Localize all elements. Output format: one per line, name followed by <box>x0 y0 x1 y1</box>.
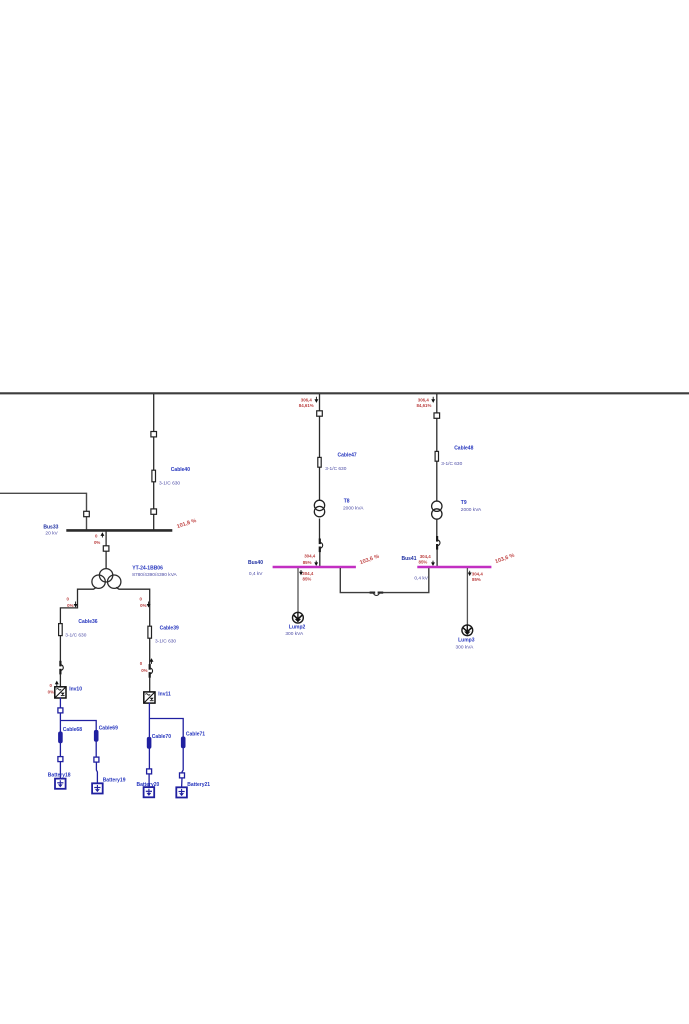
svg-text:Lump2: Lump2 <box>289 625 306 631</box>
svg-text:T8: T8 <box>344 499 350 505</box>
svg-text:T9: T9 <box>461 500 467 506</box>
cable Cable40 symbol <box>152 470 156 482</box>
svg-text:85%: 85% <box>419 560 428 565</box>
svg-text:306,4: 306,4 <box>301 397 313 402</box>
breaker DC CB above Battery21 <box>180 748 185 788</box>
svg-text:Cable39: Cable39 <box>160 626 179 632</box>
wire: DC split to Cable68 and Cable69 <box>60 713 96 757</box>
breaker DC CB above Battery20 <box>147 769 152 787</box>
label 0 0% flow above Inv11 <box>140 659 153 673</box>
label 304,4 85% into Bus41 <box>419 554 435 565</box>
svg-text:Battery19: Battery19 <box>103 778 126 784</box>
fuse on right branch above Inv11 <box>150 664 153 692</box>
fuse on tie line <box>370 593 384 596</box>
wire: Bus33 to transformer primary <box>105 531 107 569</box>
label Cable69 <box>99 725 118 731</box>
label Lump3 300 kVA <box>456 638 475 651</box>
wire: Cable40 branch from utility line to Bus33 <box>153 394 155 530</box>
cable Cable71 symbol <box>181 737 185 748</box>
label 0 0% right winding flow <box>140 596 150 608</box>
svg-text:3-1/C 630: 3-1/C 630 <box>65 633 86 639</box>
svg-text:20 kV: 20 kV <box>45 531 58 537</box>
label T9 2000 kVA <box>461 500 482 513</box>
inverter Inv10 <box>55 687 66 698</box>
breaker DC CB below Inv10 <box>58 708 63 713</box>
label T8 2000 kVA <box>343 499 364 512</box>
battery Battery21 <box>176 787 187 797</box>
cable Cable70 symbol <box>147 737 151 748</box>
svg-text:3-1/C 630: 3-1/C 630 <box>441 461 462 467</box>
svg-text:Lump3: Lump3 <box>458 638 475 644</box>
bus Bus40 0,4 kV <box>273 566 356 568</box>
breaker CB top of Cable48 <box>434 413 440 418</box>
svg-text:306,4: 306,4 <box>418 397 430 402</box>
svg-text:101,8 %: 101,8 % <box>176 518 197 530</box>
wire: top utility line <box>0 392 689 394</box>
cable Cable39 symbol <box>148 626 152 638</box>
cable Cable36 symbol <box>59 624 63 636</box>
transformer T9 <box>432 501 442 519</box>
label Battery19 <box>103 778 126 784</box>
wire: right secondary winding down to Cable39 <box>116 587 150 666</box>
label Cable47 <box>325 453 357 473</box>
svg-text:304,4: 304,4 <box>472 572 484 577</box>
svg-text:300 kVA: 300 kVA <box>285 631 304 637</box>
svg-text:304,4: 304,4 <box>302 571 314 576</box>
label 304,4 85% out of Bus40 <box>300 570 314 582</box>
wire: Inv10 DC output <box>59 698 61 708</box>
svg-text:103,6 %: 103,6 % <box>494 553 515 566</box>
svg-text:8780/4390/4390 kVA: 8780/4390/4390 kVA <box>132 572 177 578</box>
svg-text:0%: 0% <box>67 603 73 608</box>
svg-text:Bus41: Bus41 <box>401 556 416 562</box>
label Lump2 300 kVA <box>285 625 305 638</box>
svg-text:0%: 0% <box>141 668 147 673</box>
svg-text:Cable47: Cable47 <box>338 453 357 459</box>
wire: left secondary winding down to Cable36 <box>60 587 96 664</box>
svg-text:Bus40: Bus40 <box>248 560 263 566</box>
label Bus41 <box>401 556 428 582</box>
label Cable68 <box>63 727 82 733</box>
label Inv11 <box>158 692 171 698</box>
svg-text:84,61%: 84,61% <box>299 403 314 408</box>
cable Cable47 symbol <box>318 457 321 467</box>
label 306,4 84,61% flow into Cable48 <box>416 397 434 408</box>
label Battery21 <box>187 782 210 788</box>
label Cable39 <box>155 626 179 645</box>
svg-text:85%: 85% <box>303 577 312 582</box>
wire: Bus40 to Lump2 <box>297 568 299 612</box>
breaker CB top of Cable40 <box>151 432 157 437</box>
svg-text:0: 0 <box>67 596 70 601</box>
breaker CB bottom of Cable40 <box>151 509 157 514</box>
svg-text:2000 kVA: 2000 kVA <box>343 506 364 512</box>
svg-text:Battery18: Battery18 <box>48 772 71 778</box>
battery Battery20 <box>144 787 155 797</box>
svg-text:0,4 kV: 0,4 kV <box>249 571 263 577</box>
breaker CB transformer primary <box>103 546 109 551</box>
svg-text:0%: 0% <box>94 540 100 545</box>
breaker DC CB above Battery19 <box>94 757 99 783</box>
label Cable36 <box>65 619 97 638</box>
breaker CB top of Cable47 <box>317 411 323 416</box>
load Lump2 <box>293 612 304 623</box>
label Cable71 <box>186 732 205 738</box>
label Bus33 <box>43 525 58 537</box>
label 103,6 % loading of Bus40 <box>359 554 380 567</box>
load Lump3 <box>462 625 473 636</box>
svg-text:Cable71: Cable71 <box>186 732 205 738</box>
wire: Cable48 branch from utility line to T9 <box>436 394 438 502</box>
wire: Inv11 DC split to Cable70 and Cable71 <box>149 703 183 769</box>
fuse between T8 and Bus40 <box>320 539 323 553</box>
svg-text:85%: 85% <box>303 560 312 565</box>
svg-text:0: 0 <box>140 661 143 666</box>
label 0 0% left winding flow <box>67 596 77 608</box>
svg-text:Cable68: Cable68 <box>63 727 82 733</box>
wire: tie line between Bus40 and Bus41 <box>340 568 429 593</box>
svg-text:YT-24-1BB06: YT-24-1BB06 <box>132 566 163 572</box>
svg-text:3-1/C 630: 3-1/C 630 <box>159 481 180 487</box>
label 304,4 85% into Bus40 <box>303 554 318 565</box>
label 0 0% flow at Inv10 <box>48 682 58 695</box>
label Cable48 <box>441 446 473 468</box>
svg-text:0: 0 <box>95 533 98 538</box>
label Battery18 <box>48 772 71 778</box>
label Cable40 <box>159 467 190 487</box>
wire: left feeder into Bus33 <box>0 493 87 529</box>
wire: T8 secondary to Bus40 <box>319 519 321 567</box>
wire: Cable47 branch from utility line to T8 <box>319 394 321 501</box>
svg-text:3-1/C 630: 3-1/C 630 <box>325 466 346 472</box>
svg-text:103,6 %: 103,6 % <box>359 554 380 567</box>
svg-text:84,61%: 84,61% <box>416 403 431 408</box>
cable Cable69 symbol <box>94 730 98 741</box>
svg-text:2000 kVA: 2000 kVA <box>461 507 482 513</box>
svg-text:Inv10: Inv10 <box>69 687 82 693</box>
inverter Inv11 <box>144 692 155 703</box>
svg-text:Cable69: Cable69 <box>99 725 118 731</box>
breaker DC CB above Battery18 <box>58 757 63 779</box>
svg-text:0%: 0% <box>140 603 146 608</box>
label Inv10 <box>69 687 82 693</box>
label Battery20 <box>137 782 160 788</box>
svg-text:3-1/C 630: 3-1/C 630 <box>155 638 176 644</box>
svg-text:0,4 kV: 0,4 kV <box>414 575 428 581</box>
fuse on left branch above Inv10 <box>60 661 63 687</box>
svg-text:Cable70: Cable70 <box>152 734 171 740</box>
svg-text:0: 0 <box>50 683 53 688</box>
svg-text:Inv11: Inv11 <box>158 692 171 698</box>
svg-text:Cable40: Cable40 <box>171 467 190 473</box>
fuse between T9 and Bus41 <box>437 536 440 550</box>
svg-text:Cable36: Cable36 <box>78 619 97 625</box>
wire: T9 secondary to Bus41 <box>436 519 438 566</box>
wire: Bus41 to Lump3 <box>466 568 468 625</box>
label 304,4 85% out of Bus41 <box>469 571 484 582</box>
label Cable70 <box>152 734 171 740</box>
svg-text:Bus33: Bus33 <box>43 525 58 531</box>
battery Battery19 <box>92 783 103 793</box>
svg-text:0%: 0% <box>48 689 54 694</box>
bus Bus41 0,4 kV <box>417 566 491 568</box>
transformer T8 <box>314 500 324 517</box>
label 0 0% flow at transformer primary <box>94 533 104 545</box>
label 103,6 % loading of Bus41 <box>494 553 515 566</box>
label Bus40 <box>248 560 263 577</box>
svg-text:Cable48: Cable48 <box>454 446 473 452</box>
battery Battery18 <box>55 779 66 789</box>
label 101,8 % loading of Bus33 <box>176 518 197 530</box>
cable Cable68 symbol <box>59 732 63 743</box>
svg-text:85%: 85% <box>472 577 481 582</box>
svg-text:304,4: 304,4 <box>304 554 316 559</box>
transformer YT-24-1BB06 (3-winding) <box>92 569 121 589</box>
cable Cable48 symbol <box>435 451 438 461</box>
label 306,4 84,61% flow into Cable47 <box>299 397 318 408</box>
svg-text:0: 0 <box>140 596 143 601</box>
svg-text:304,4: 304,4 <box>420 554 432 559</box>
bus Bus33 20 kV <box>66 529 172 532</box>
breaker CB on left feeder <box>84 511 90 516</box>
svg-text:Battery21: Battery21 <box>187 782 210 788</box>
label YT-24-1BB06 <box>132 566 177 578</box>
svg-text:300 kVA: 300 kVA <box>456 644 475 650</box>
